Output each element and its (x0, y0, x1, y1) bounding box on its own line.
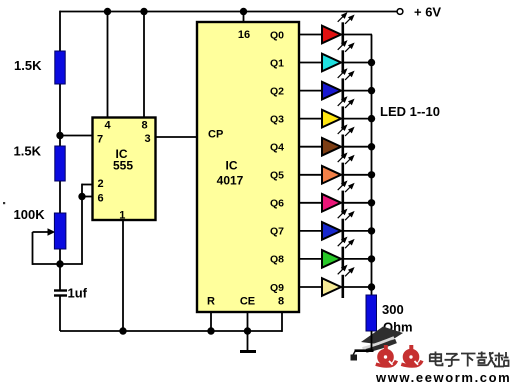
wire cathode to bus (344, 258, 372, 260)
svg-text:1uf: 1uf (68, 286, 88, 301)
svg-text:8: 8 (141, 120, 147, 132)
char 子 (445, 354, 460, 366)
svg-text:Q4: Q4 (270, 142, 284, 154)
LED D6 emission arrows (338, 154, 354, 165)
wire Q3 output stub (299, 118, 322, 120)
op IC U1 555 box (93, 118, 156, 221)
watermark CJK text 电子下载站 (430, 352, 509, 367)
wire 555 pin6 (82, 196, 93, 198)
svg-text:Q9: Q9 (270, 282, 284, 294)
wire cathode to bus (344, 286, 372, 288)
junction pot wiper / pot bottom / C1 (56, 260, 63, 267)
char 电 (430, 352, 443, 366)
wire below R3 (371, 331, 373, 350)
junction bus row Q8 (368, 255, 375, 262)
wire Q6 output stub (299, 202, 322, 204)
LED D5 emission arrows (338, 126, 354, 137)
junction ground rail / 555 pin 1 (119, 327, 126, 334)
watermark red char bug 1 (376, 345, 397, 366)
LED D3 emission arrows (338, 69, 354, 80)
svg-text:CP: CP (208, 129, 223, 141)
svg-text:Q7: Q7 (270, 226, 284, 238)
junction supply rail / 4017 pin 16 (240, 8, 247, 15)
wire wiper left leg (32, 232, 34, 265)
svg-text:3: 3 (144, 133, 150, 145)
wire LED bus vertical (371, 35, 373, 296)
svg-text:300: 300 (382, 302, 404, 317)
wire wiper arm (33, 231, 50, 233)
svg-text:6: 6 (97, 193, 103, 205)
wire Q0 output stub (299, 34, 322, 36)
svg-text:R: R (207, 296, 215, 308)
LED D10 emission arrows (338, 266, 354, 277)
LED D2 emission arrows (338, 41, 354, 52)
svg-text:LED 1--10: LED 1--10 (380, 104, 440, 119)
wire Q9 output stub (299, 286, 322, 288)
capacitor C1 1uf plates (54, 289, 67, 291)
wire 555 pin3 to 4017 CP (155, 136, 198, 138)
junction bus row Q7 (368, 227, 375, 234)
junction bus row Q2 (368, 87, 375, 94)
wire ground stub below CE (247, 331, 249, 350)
LED D3 (322, 82, 341, 100)
wire ground rail (60, 330, 282, 332)
wire cathode to bus (344, 34, 372, 36)
wire cathode to bus (344, 118, 372, 120)
terminal +6V (397, 9, 403, 15)
svg-text:+ 6V: + 6V (414, 5, 441, 20)
wire 4017 pin16 from rail (243, 12, 245, 24)
svg-text:1.5K: 1.5K (14, 58, 42, 73)
svg-text:4: 4 (104, 120, 111, 132)
svg-text:Q2: Q2 (270, 85, 284, 97)
LED D7 emission arrows (338, 182, 354, 193)
LED D9 emission arrows (338, 238, 354, 249)
junction R1-R2 node / 555 pin 7 (56, 132, 63, 139)
junction ground rail / 4017 R (207, 327, 214, 334)
potentiometer 100K (54, 213, 66, 249)
wire Q2 output stub (299, 90, 322, 92)
IC U2 4017 box (197, 22, 299, 312)
wire 4017 pin8 leg (281, 312, 283, 332)
LED D5 (322, 138, 341, 156)
svg-text:Q6: Q6 (270, 198, 284, 210)
wire left column lower (cap to ground rail) (59, 296, 61, 331)
resistor R2 1.5K (55, 146, 65, 181)
LED D2 (322, 54, 341, 72)
wire 555 pin8 from rail (143, 12, 145, 119)
LED D1 (322, 26, 341, 44)
wire 555 pin4 from rail (107, 12, 109, 119)
wire 4017 R leg (210, 312, 212, 331)
svg-text:Q0: Q0 (270, 29, 284, 41)
svg-text:www.eeworm.com: www.eeworm.com (375, 370, 511, 384)
wire top +6V rail (60, 11, 397, 13)
svg-text:7: 7 (97, 134, 103, 146)
wire cathode to bus (344, 146, 372, 148)
svg-text:Q8: Q8 (270, 254, 284, 266)
ground bar below R3 (355, 349, 374, 352)
char 下 (461, 354, 476, 367)
ground symbol bar (240, 350, 256, 353)
wire cathode to bus (344, 230, 372, 232)
LED D6 (322, 166, 341, 184)
wire wiper rail horizontal (33, 263, 83, 265)
LED D9 (322, 250, 341, 268)
wire cathode to bus (344, 62, 372, 64)
svg-text:16: 16 (238, 29, 250, 41)
wire 555 pin1 down (122, 220, 124, 331)
watermark graduation cap logo (351, 327, 404, 361)
junction supply rail / 555 pin 4 (104, 8, 111, 15)
LED D8 emission arrows (338, 210, 354, 221)
svg-text:Q3: Q3 (270, 113, 284, 125)
wire cathode to bus (344, 202, 372, 204)
wire left column upper (59, 11, 61, 290)
char 载 (477, 352, 496, 367)
watermark red char bug 2 (401, 345, 422, 366)
wire Q4 output stub (299, 146, 322, 148)
LED D4 (322, 110, 341, 128)
wire pin2-pin6 vertical to wiper rail (81, 184, 83, 264)
junction bus row Q5 (368, 171, 375, 178)
wire cathode to bus (344, 174, 372, 176)
svg-text:8: 8 (278, 296, 284, 308)
LED D8 (322, 222, 341, 240)
junction bus row Q4 (368, 143, 375, 150)
svg-text:Q1: Q1 (270, 57, 284, 69)
wire Q5 output stub (299, 174, 322, 176)
junction supply rail / 555 pin 8 (140, 8, 147, 15)
svg-text:Q5: Q5 (270, 170, 284, 182)
LED D10 (322, 278, 341, 296)
svg-text:1: 1 (119, 210, 125, 222)
svg-text:1.5K: 1.5K (14, 144, 42, 159)
junction 555 pin 2 / pin 6 (78, 193, 85, 200)
potentiometer wiper arrowhead (48, 228, 56, 236)
junction bus row Q6 (368, 199, 375, 206)
wire 4017 CE leg (247, 312, 249, 331)
resistor R3 300 Ohm (366, 295, 377, 331)
wire Q7 output stub (299, 230, 322, 232)
svg-text:4017: 4017 (217, 174, 244, 188)
svg-text:555: 555 (113, 159, 133, 173)
stray dot (3, 202, 5, 204)
wire Q8 output stub (299, 258, 322, 260)
wire cathode to bus (344, 90, 372, 92)
junction bus row Q1 (368, 59, 375, 66)
LED D4 emission arrows (338, 97, 354, 108)
svg-text:IC: IC (226, 159, 238, 173)
LED D7 (322, 194, 341, 212)
LED D1 emission arrows (338, 13, 354, 23)
svg-text:CE: CE (240, 296, 255, 308)
svg-text:100K: 100K (14, 207, 46, 222)
resistor R1 1.5K (55, 51, 65, 84)
wire Q1 output stub (299, 62, 322, 64)
junction bus row Q3 (368, 115, 375, 122)
junction ground rail / 4017 CE (244, 327, 251, 334)
wire 555 pin2 (82, 184, 93, 186)
wire 555 pin7 (60, 135, 93, 137)
junction bus row Q9 (368, 283, 375, 290)
char 站 (494, 352, 509, 367)
svg-text:2: 2 (97, 178, 103, 190)
